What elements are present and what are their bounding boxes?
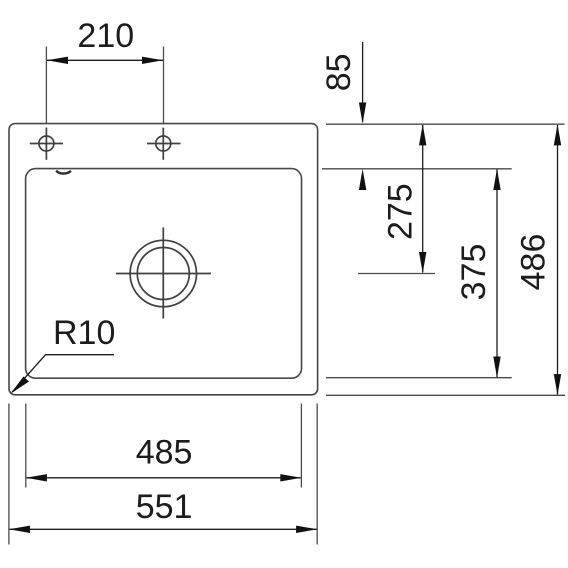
svg-text:R10: R10 <box>53 314 115 352</box>
dim 210 arrow right <box>142 57 163 64</box>
svg-text:275: 275 <box>381 183 419 240</box>
bowl bottom extension line <box>326 377 512 379</box>
dim 210 extension lines <box>46 47 163 124</box>
dim 485 arrow left <box>26 474 47 481</box>
dim 210 arrow left <box>47 57 68 64</box>
svg-text:485: 485 <box>136 434 193 472</box>
dim 375 line <box>496 170 498 378</box>
dim 486 line <box>557 125 559 395</box>
overflow detail <box>56 171 71 174</box>
dim 85 upper line <box>362 42 364 122</box>
svg-text:486: 486 <box>514 234 552 291</box>
dim 486 up arrow <box>554 124 561 145</box>
sink bowl inner rect <box>26 169 302 379</box>
svg-text:551: 551 <box>136 488 193 526</box>
drain center extension line <box>358 273 435 275</box>
dim 485 line <box>27 477 301 479</box>
right extension line sink top <box>326 123 565 125</box>
dim 375 up arrow <box>493 169 500 190</box>
dim 85 down arrow <box>359 103 366 124</box>
R10 leader <box>12 355 114 393</box>
dim 551 line <box>10 528 317 530</box>
svg-text:210: 210 <box>77 17 134 55</box>
dim 275 line <box>422 125 424 273</box>
dim 485 arrow right <box>280 474 301 481</box>
bottom extension lines <box>9 404 317 545</box>
R10 leader arrow <box>11 377 30 394</box>
dim 210 line <box>47 59 163 61</box>
dim 275 up arrow <box>419 124 426 145</box>
dim 275 down arrow <box>419 252 426 273</box>
svg-text:85: 85 <box>320 53 358 91</box>
faucet hole 2 <box>147 128 181 160</box>
dim 551 arrow right <box>296 526 317 533</box>
dim 551 arrow left <box>9 526 30 533</box>
dim 486 down arrow <box>554 374 561 395</box>
dim 375 down arrow <box>493 357 500 378</box>
sink outer rim <box>9 124 318 395</box>
drain <box>116 228 211 319</box>
faucet hole 1 <box>30 128 63 160</box>
right extension line bowl top <box>322 168 512 170</box>
dim 85 up arrow <box>359 169 366 190</box>
svg-text:375: 375 <box>455 244 493 301</box>
sink bottom extension line <box>326 394 565 396</box>
